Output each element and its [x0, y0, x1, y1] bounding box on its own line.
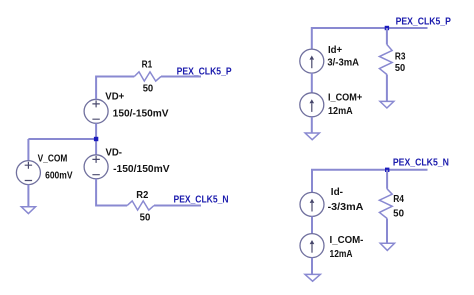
- resistor R1: [134, 72, 161, 81]
- wire top-right rail PEX_CLK5_P: [312, 28, 428, 49]
- svg-text:R4: R4: [393, 194, 404, 205]
- svg-text:50: 50: [140, 213, 151, 224]
- wire bottom-right rail PEX_CLK5_N: [312, 170, 428, 193]
- svg-text:12mA: 12mA: [328, 106, 353, 117]
- wire I_COM+ to ground: [311, 117, 313, 133]
- resistor R4: [379, 189, 392, 219]
- current source I_COM-: [300, 234, 324, 258]
- resistor R2: [127, 201, 154, 210]
- junction node PEX_CLK5_N: [385, 168, 389, 172]
- svg-text:50: 50: [395, 63, 405, 74]
- wire R4 to ground: [386, 218, 388, 243]
- voltage source VD-: [84, 155, 108, 179]
- svg-text:150/-150mV: 150/-150mV: [113, 108, 169, 119]
- wire junction to R3: [386, 28, 388, 45]
- svg-text:-150/150mV: -150/150mV: [113, 164, 170, 175]
- ground (V_COM): [21, 207, 35, 214]
- current source I_COM+: [300, 93, 324, 117]
- wire R3 to ground: [386, 75, 388, 102]
- svg-text:R1: R1: [142, 60, 153, 71]
- junction node PEX_CLK5_P: [385, 26, 389, 30]
- ground (R4): [380, 243, 394, 250]
- wire common node horizontal: [28, 138, 96, 140]
- current source Id-: [300, 192, 324, 216]
- wire Id- to I_COM-: [311, 216, 313, 233]
- svg-text:VD+: VD+: [105, 92, 124, 103]
- wire V_COM top vertical: [27, 139, 29, 161]
- wire I_COM- to ground: [311, 258, 313, 275]
- ground (I_COM-): [305, 274, 320, 281]
- wire Id+ to I_COM+: [311, 73, 313, 93]
- svg-text:Id+: Id+: [328, 45, 343, 56]
- svg-text:600mV: 600mV: [45, 170, 73, 181]
- svg-text:PEX_CLK5_N: PEX_CLK5_N: [174, 194, 229, 205]
- svg-text:50: 50: [393, 208, 404, 219]
- svg-text:V_COM: V_COM: [38, 154, 68, 165]
- svg-text:3/-3mA: 3/-3mA: [327, 58, 359, 69]
- voltage source VD+: [84, 99, 108, 123]
- svg-text:VD-: VD-: [106, 148, 123, 159]
- wire VD+ bottom to VD- top through junction: [95, 123, 97, 155]
- svg-text:-3/3mA: -3/3mA: [328, 202, 364, 213]
- svg-text:PEX_CLK5_N: PEX_CLK5_N: [393, 158, 449, 169]
- resistor R3: [379, 45, 392, 75]
- svg-text:I_COM-: I_COM-: [330, 235, 364, 246]
- ground (I_COM+): [305, 133, 319, 140]
- ground (R3): [380, 101, 394, 108]
- wire R2 to net PEX_CLK5_N: [154, 205, 201, 207]
- svg-text:I_COM+: I_COM+: [328, 92, 363, 103]
- svg-text:50: 50: [143, 84, 154, 95]
- svg-text:12mA: 12mA: [330, 249, 353, 260]
- junction common node: [94, 137, 98, 141]
- svg-text:PEX_CLK5_P: PEX_CLK5_P: [396, 16, 452, 27]
- svg-text:R2: R2: [136, 190, 148, 201]
- wire R1 to net PEX_CLK5_P: [161, 76, 201, 78]
- current source Id+: [300, 49, 324, 73]
- voltage source V_COM: [16, 161, 40, 185]
- svg-text:R3: R3: [395, 51, 406, 62]
- svg-text:Id-: Id-: [331, 187, 343, 198]
- wire V_COM to ground: [27, 185, 29, 207]
- wire junction to R4: [386, 170, 388, 189]
- wire VD- bottom to R2: [96, 179, 127, 206]
- wire VD+ top to R1: [96, 77, 134, 100]
- svg-text:PEX_CLK5_P: PEX_CLK5_P: [177, 67, 232, 78]
